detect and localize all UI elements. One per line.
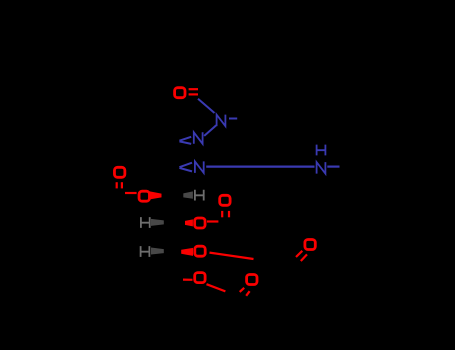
oxygen O2 (C3 ester carbonyl O) <box>114 167 124 177</box>
double bond C1=N1 line a <box>179 137 191 141</box>
nitrogen N4 (anilino NH) <box>317 162 326 174</box>
oxygen O5 (C4 ester carbonyl O) <box>220 195 230 205</box>
bond N2 to N4 (long horizontal) <box>206 166 314 168</box>
nitrogen N3 (amide N) <box>217 115 226 127</box>
wedge bond H to C4 <box>151 219 164 226</box>
hydrogen on C3 <box>195 190 204 201</box>
double bond C=O1 line a <box>189 88 198 90</box>
bond ester C to O3 <box>125 192 137 194</box>
double bond C2=N2 line b <box>179 168 192 172</box>
double bond C=O9 line b <box>246 291 249 296</box>
double bond C=O5 line b <box>228 211 230 217</box>
double bond C=O5 line a <box>221 211 223 217</box>
bond O4 to ester carbonyl C <box>207 220 218 222</box>
double bond C=O7 line b <box>301 254 307 261</box>
nitrogen N1 (imine N on C1) <box>194 132 203 144</box>
oxygen O8 (C6 ester O) <box>195 273 205 283</box>
nitrogen N2 (imine N on C2) <box>195 161 204 173</box>
double bond C=O2 line b <box>121 182 123 188</box>
bond N4 to phenyl stub <box>327 166 339 168</box>
bond O6 to ester carbonyl C (long) <box>210 253 254 259</box>
oxygen O9 (C6 ester carbonyl O) <box>247 275 257 285</box>
wedge bond C3 to H <box>183 191 193 198</box>
oxygen O3 (C3 ester O) <box>139 191 149 201</box>
double bond C=O2 line a <box>116 182 118 188</box>
bond C6 to O8 <box>183 279 193 281</box>
wedge bond C5 to O6 <box>181 248 193 256</box>
wedge bond C4 to O4 <box>185 219 193 226</box>
bond carbonyl C to amide N3 <box>198 99 215 113</box>
oxygen O6 (C5 ester O) <box>195 246 205 256</box>
hydrogen on N4 <box>317 145 326 156</box>
wedge bond O3 to C3 <box>150 191 162 199</box>
bond O8 to ester carbonyl C <box>207 284 226 291</box>
bond N3-N1 hydrazide <box>204 125 216 136</box>
double bond C=O9 line a <box>240 288 245 292</box>
hydrogen on C4 <box>141 217 150 228</box>
wedge bond H to C5 <box>151 248 164 255</box>
oxygen O7 (C5 ester carbonyl O) <box>305 240 315 250</box>
oxygen O4 (C4 ester O) <box>195 218 205 228</box>
double bond C=O1 line b <box>189 93 198 95</box>
oxygen O1 (benzoyl carbonyl O) <box>175 88 185 98</box>
double bond C=O7 line a <box>296 251 302 257</box>
double bond C1=N1 line b <box>179 141 191 144</box>
bond N3 to phenyl stub <box>229 118 237 120</box>
hydrogen on C5 <box>141 246 150 257</box>
double bond C2=N2 line a <box>179 163 192 168</box>
